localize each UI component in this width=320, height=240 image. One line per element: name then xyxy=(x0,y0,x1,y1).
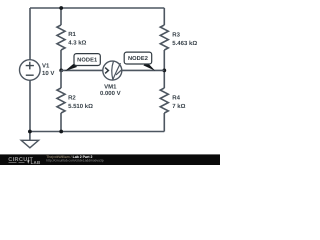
svg-text:http://circuitlab.com/c8de1add: http://circuitlab.com/c8de1addma6va3p xyxy=(46,158,104,162)
wire node A to R2 xyxy=(60,70,62,88)
wire R3 to node B xyxy=(163,50,165,88)
junction bottom rail / R2 xyxy=(59,130,63,134)
wire left rail lower xyxy=(29,80,31,131)
wire R4 to bottom rail xyxy=(163,113,165,132)
svg-text:R2: R2 xyxy=(68,94,76,101)
svg-text:4.3 kΩ: 4.3 kΩ xyxy=(68,40,86,47)
wire right rail upper stub xyxy=(163,8,165,25)
wire R1 to node A xyxy=(60,50,62,70)
svg-text:0.000 V: 0.000 V xyxy=(100,90,121,97)
node NODE2 flag pointer xyxy=(143,62,155,71)
svg-text:NODE1: NODE1 xyxy=(77,58,97,64)
resistor R1 xyxy=(57,25,65,50)
wire R2 to bottom rail xyxy=(60,113,62,132)
resistor R2 xyxy=(57,88,65,113)
svg-text:VM1: VM1 xyxy=(104,84,117,91)
wire middle branch upper stub xyxy=(60,8,62,25)
resistor R3 xyxy=(160,25,168,50)
node NODE2 flag xyxy=(124,52,152,64)
node NODE1 flag pointer xyxy=(65,63,77,71)
svg-text:R1: R1 xyxy=(68,31,76,38)
svg-text:V1: V1 xyxy=(42,62,50,69)
wire node A to voltmeter xyxy=(61,69,103,71)
junction node A xyxy=(59,69,63,73)
footer watermark bar xyxy=(0,154,220,165)
voltmeter VM1 xyxy=(103,61,122,80)
svg-text:10 V: 10 V xyxy=(42,70,54,77)
svg-text:NODE2: NODE2 xyxy=(128,56,148,62)
voltage source V1 xyxy=(20,60,41,81)
wire left rail upper xyxy=(29,8,31,60)
svg-text:R3: R3 xyxy=(172,32,180,39)
resistor R4 xyxy=(160,88,168,113)
svg-text:R4: R4 xyxy=(172,94,180,101)
svg-text:5.510 kΩ: 5.510 kΩ xyxy=(68,103,93,110)
ground xyxy=(21,132,38,148)
wire top rail xyxy=(30,7,164,9)
svg-text:LAB: LAB xyxy=(31,160,41,165)
svg-text:7 kΩ: 7 kΩ xyxy=(172,103,185,110)
junction ground/bottom-left xyxy=(28,130,32,134)
wire voltmeter to node B xyxy=(122,69,165,71)
junction node B xyxy=(162,69,166,73)
junction top rail / R1 xyxy=(59,6,63,10)
wire bottom rail xyxy=(30,131,164,133)
svg-text:5.463 kΩ: 5.463 kΩ xyxy=(172,40,197,47)
node NODE1 flag xyxy=(74,54,100,66)
